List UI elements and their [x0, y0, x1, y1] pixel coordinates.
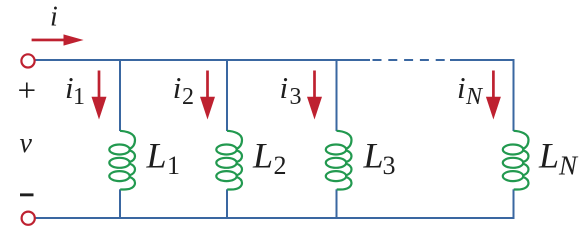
svg-text:i: i	[457, 70, 466, 105]
svg-text:3: 3	[290, 84, 302, 110]
svg-text:L: L	[252, 136, 273, 176]
svg-text:1: 1	[167, 151, 180, 180]
svg-text:3: 3	[383, 151, 396, 180]
svg-text:+: +	[18, 73, 37, 109]
svg-text:2: 2	[182, 84, 194, 110]
svg-text:i: i	[173, 70, 182, 105]
svg-text:L: L	[538, 136, 559, 176]
svg-text:v: v	[20, 128, 33, 159]
svg-text:i: i	[280, 70, 289, 105]
svg-text:1: 1	[73, 84, 85, 110]
svg-text:N: N	[558, 151, 579, 181]
svg-text:i: i	[50, 2, 58, 33]
svg-text:N: N	[465, 84, 484, 110]
svg-text:2: 2	[274, 151, 287, 180]
svg-text:L: L	[363, 136, 384, 176]
svg-text:L: L	[146, 136, 167, 176]
